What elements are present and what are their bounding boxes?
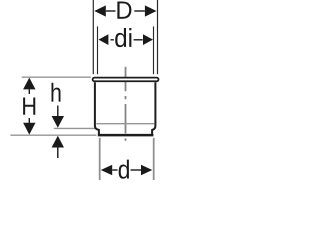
internal shoulder edge (socket stop) bbox=[96, 123, 154, 125]
reference line bottom (level of fitting end) bbox=[10, 134, 96, 136]
extension line d right bbox=[153, 138, 155, 180]
extension line di right bbox=[153, 26, 155, 74]
centre line (vertical dash-dot) bbox=[125, 67, 127, 141]
wire: left wall bbox=[95, 82, 99, 134]
dimension D (top row) bbox=[94, 2, 156, 19]
extension line d left bbox=[99, 138, 101, 180]
extension line D left bbox=[92, 0, 94, 74]
reference line mid (level of shoulder step) bbox=[54, 127, 97, 129]
extension line di left bbox=[97, 26, 99, 74]
technical drawing: pipe socket with dimensions D, di, H, h, d bbox=[0, 0, 180, 180]
fitting body: outer walls with shoulder step and cut end bbox=[95, 82, 155, 134]
fitting body: bottom cut edge bbox=[98, 134, 154, 137]
fitting body: socket rim (top bead) bbox=[93, 78, 159, 82]
extension line D right bbox=[157, 0, 159, 74]
reference line top (level of socket mouth) bbox=[22, 76, 91, 78]
dimension di (second row) bbox=[99, 28, 154, 47]
dimension d (bottom row) bbox=[101, 160, 153, 179]
wire: right wall bbox=[152, 82, 155, 134]
dimension H (left, outer) bbox=[23, 78, 35, 135]
dimension h (inner column) bbox=[52, 83, 65, 158]
